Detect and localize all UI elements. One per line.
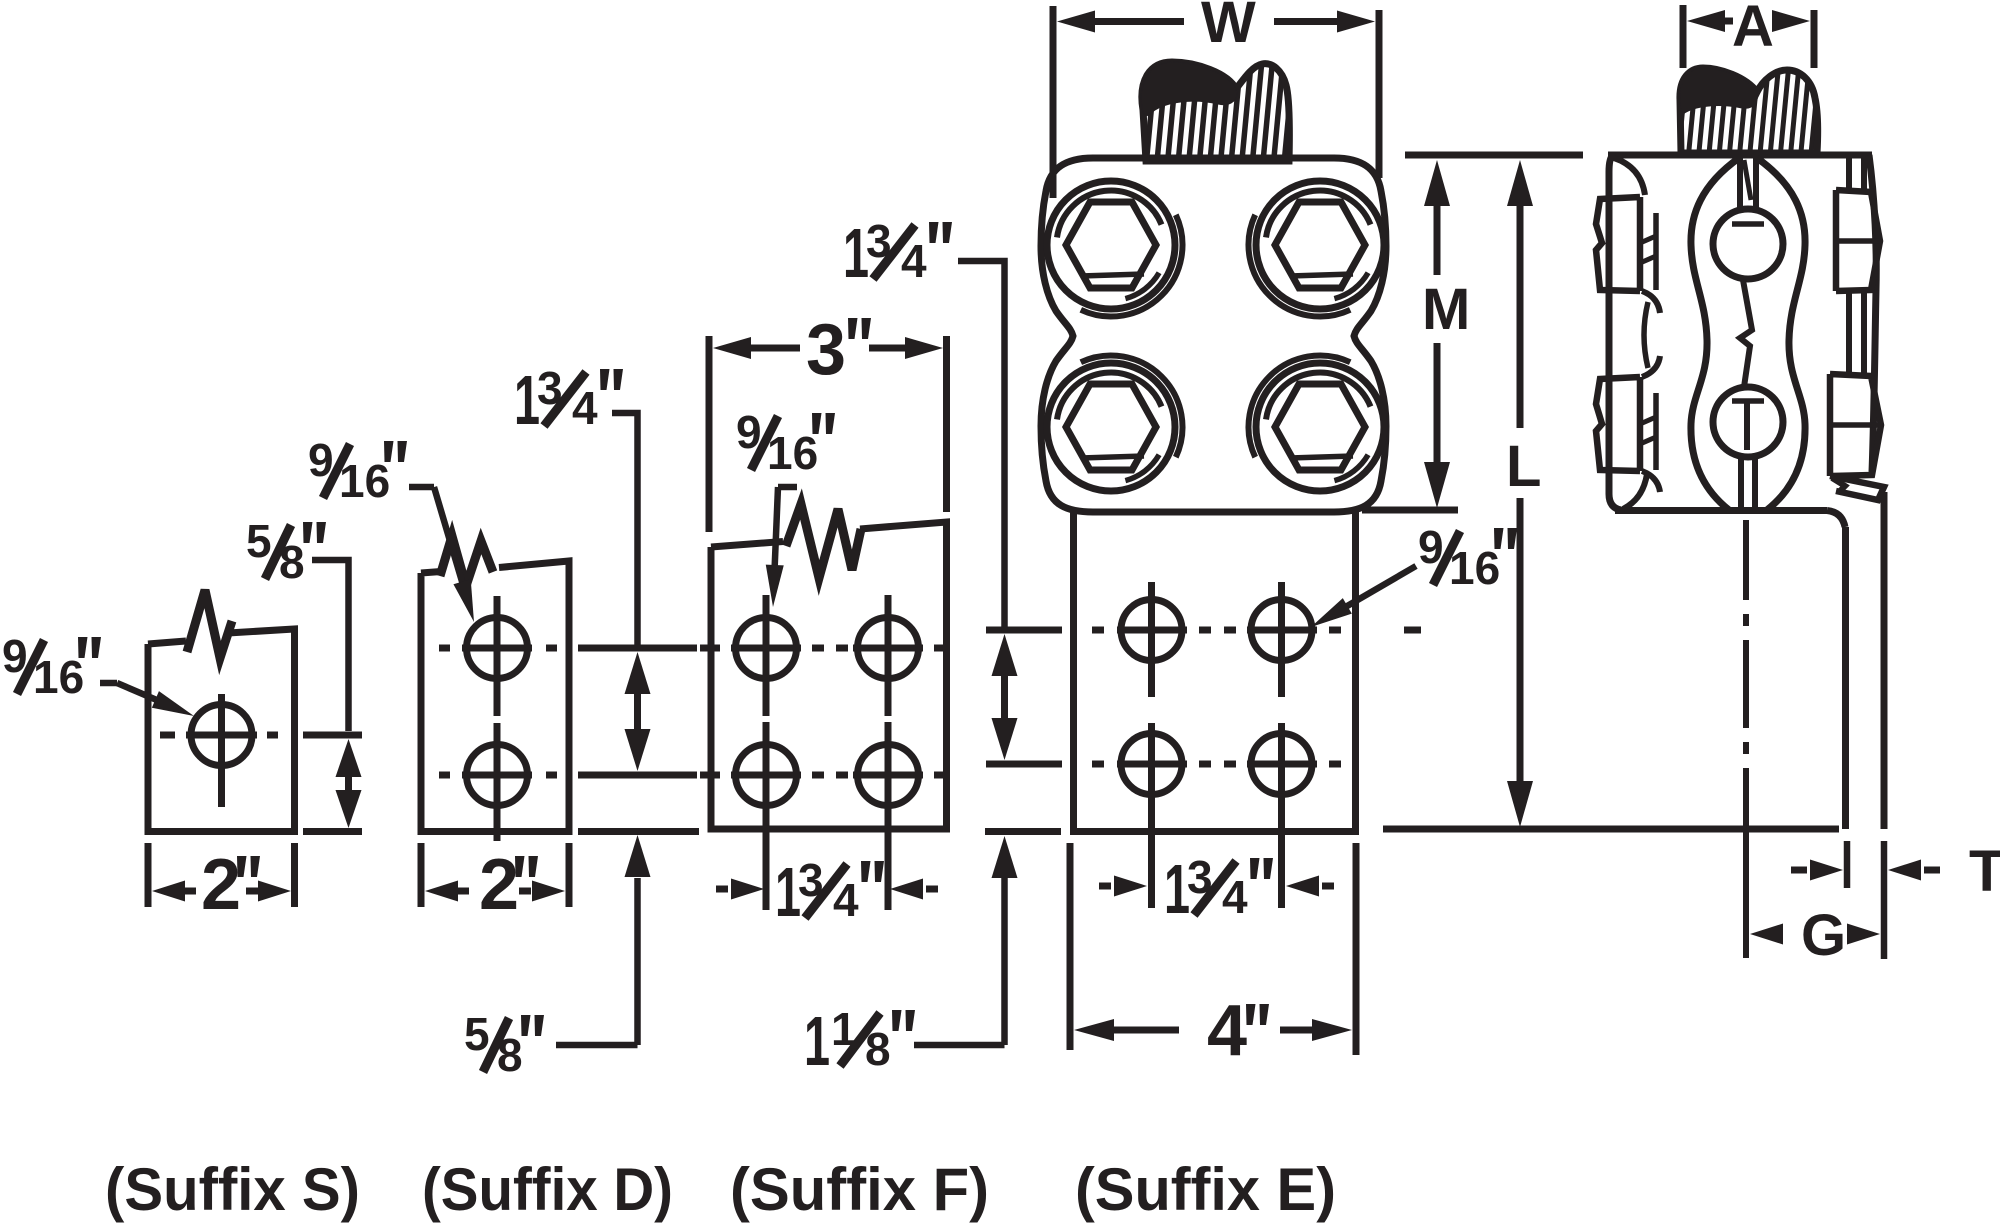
dashes F bottom row [700, 772, 720, 779]
side left lower nut flange [1642, 356, 1660, 377]
side left upper nut flange [1614, 158, 1645, 195]
dim W arrows [1057, 11, 1095, 33]
ext lines D rows [578, 645, 697, 652]
svg-text:8: 8 [497, 1029, 523, 1081]
long bottom line [1383, 826, 1839, 833]
svg-text:16: 16 [1449, 542, 1500, 594]
side lower ball [1713, 387, 1783, 457]
pad E hole bottom-right [1251, 734, 1312, 795]
dashes E top row [1092, 627, 1104, 634]
dim 4in arrows [1074, 1019, 1114, 1041]
dim 2in D arrows [425, 881, 458, 902]
dim M [1424, 160, 1450, 206]
svg-text:(Suffix S): (Suffix S) [105, 1156, 360, 1223]
ext line S bottom level [303, 828, 362, 835]
dim A ticks [1680, 5, 1687, 68]
svg-text:(Suffix E): (Suffix E) [1075, 1156, 1336, 1223]
leader 9/16 E [1344, 566, 1416, 608]
ext line D bottom [578, 828, 699, 835]
ext line S hole level [303, 732, 362, 739]
svg-text:4: 4 [1222, 871, 1248, 923]
svg-text:4: 4 [833, 874, 859, 926]
dashes E bottom row [1092, 761, 1104, 768]
side jaw profile left [1691, 158, 1739, 510]
svg-text:16: 16 [767, 427, 818, 479]
dim 5/8 S arrows [336, 739, 362, 777]
svg-text:M: M [1422, 277, 1470, 342]
dim 5/8 D leader+arrow [556, 878, 638, 1045]
conductor side blob [1680, 68, 1758, 114]
plate S bottom edge [145, 828, 299, 835]
side pad outer face [1881, 492, 1888, 829]
svg-text:3: 3 [806, 310, 846, 390]
svg-text:G: G [1801, 903, 1846, 968]
plate F break zigzag [786, 504, 861, 578]
hole D top [467, 618, 528, 679]
svg-text:5: 5 [464, 1008, 490, 1060]
side upper ball [1713, 209, 1783, 279]
side left lower nut [1596, 377, 1640, 471]
dim T arrows [1791, 867, 1807, 874]
svg-text:(Suffix F): (Suffix F) [730, 1156, 989, 1223]
dim T ticks [1844, 841, 1851, 888]
bolt boss E at 1111,245 [1047, 181, 1175, 309]
plate D break zigzag [440, 536, 493, 586]
pad E hole bottom-left [1121, 734, 1182, 795]
hole S center dashes [160, 732, 175, 739]
plate F bottom edge [708, 826, 951, 833]
svg-text:L: L [1506, 434, 1541, 499]
clamp body E [1041, 158, 1386, 512]
side body top edge [1608, 152, 1872, 159]
dim 1-3/4 E vertical arrows [992, 634, 1018, 676]
dim 2in S arrows [152, 881, 185, 902]
side lower stem [1738, 457, 1744, 509]
dim 3in F arrows [713, 337, 751, 359]
ext line E mid right (M bottom) [1362, 507, 1458, 514]
leader 9/16 S [100, 680, 117, 687]
plate D outline [421, 561, 569, 832]
svg-text:2: 2 [201, 845, 241, 925]
ext line E top right [1405, 152, 1583, 159]
hole F top-left [736, 618, 797, 679]
svg-text:1: 1 [804, 1002, 830, 1080]
svg-text:T: T [1969, 839, 2000, 904]
bolt boss E at 1320,245 [1256, 181, 1384, 309]
side pad inner face [1842, 527, 1849, 829]
dim 4in ticks [1067, 843, 1074, 1050]
hole S crosshair + circle [191, 705, 252, 766]
svg-text:8: 8 [279, 536, 305, 588]
side bottom-right corner to pad [1827, 511, 1845, 528]
dim 1-3/4 E pad arrows (bottom) [1099, 883, 1111, 890]
plate D bottom edge [418, 828, 573, 835]
pad E hole top-right [1251, 600, 1312, 661]
hole D bottom [467, 745, 528, 806]
dim 1-3/4 D arrows [625, 652, 651, 694]
plate F outline [711, 522, 947, 829]
svg-text:5: 5 [246, 515, 272, 567]
svg-text:8: 8 [865, 1023, 891, 1075]
side body right edge [1869, 155, 1876, 472]
side mid screw w/ break [1740, 280, 1752, 387]
svg-text:W: W [1201, 0, 1256, 55]
svg-text:16: 16 [339, 455, 390, 507]
side right bolt tip [1830, 476, 1884, 500]
dim 2in S ticks [145, 843, 152, 907]
side right bolt shaft [1846, 291, 1852, 374]
side center line lower solid [1743, 829, 1749, 958]
svg-text:A: A [1732, 0, 1774, 59]
plate S outline [148, 629, 295, 832]
dim L [1507, 160, 1533, 206]
side left upper nut [1596, 197, 1640, 291]
side right lower nut [1830, 374, 1881, 476]
svg-text:2: 2 [479, 845, 519, 925]
dim W ticks [1050, 6, 1057, 198]
side body left edge [1609, 155, 1621, 510]
bolt boss E at 1320,427 [1256, 363, 1384, 491]
hole F bottom-right [858, 745, 919, 806]
leader 1-3/4 E top label [958, 261, 1005, 632]
bolt boss E at 1111,427 [1047, 363, 1175, 491]
dim A arrows [1687, 10, 1725, 32]
svg-text:4: 4 [901, 235, 927, 287]
svg-text:4: 4 [572, 382, 598, 434]
side center line [1743, 520, 1749, 600]
dim G arrows [1750, 924, 1783, 945]
dashes F top row [700, 645, 720, 652]
svg-text:16: 16 [33, 651, 84, 703]
side body bottom edge [1615, 507, 1827, 514]
pad E outline [1074, 512, 1356, 832]
leader 9/16 F [778, 484, 797, 491]
dim 1-1/8 leader+arrow [914, 878, 1005, 1045]
hole F top-right [858, 618, 919, 679]
svg-text:4: 4 [1207, 991, 1247, 1071]
pad E hole top-left [1121, 600, 1182, 661]
dim 2in D ticks [418, 843, 425, 907]
side left body curve between nuts [1644, 302, 1648, 368]
side right bolt top [1846, 158, 1852, 191]
svg-text:(Suffix D): (Suffix D) [422, 1156, 673, 1223]
side jaw profile right [1757, 158, 1805, 510]
leader 9/16 D [409, 484, 434, 491]
leader 5/8 S [312, 560, 349, 731]
side right upper nut [1836, 190, 1880, 291]
ext lines E rows left [986, 627, 1062, 634]
conductor E blob [1141, 62, 1237, 116]
hole F bottom-left [736, 745, 797, 806]
plate S break zigzag [187, 590, 232, 658]
leader 1-3/4 D [612, 413, 638, 645]
dim 1-3/4 F arrows (bottom) [716, 886, 728, 893]
side top slot [1737, 158, 1743, 209]
dim 3in F ticks [706, 336, 713, 532]
